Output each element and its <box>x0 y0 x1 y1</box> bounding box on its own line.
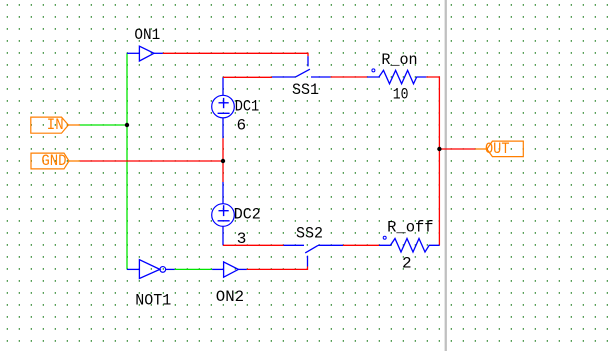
svg-text:R_on: R_on <box>381 51 417 69</box>
wire: ON1 output to SS1 top (red) <box>163 53 308 56</box>
wire: GND stub (orange) <box>69 160 80 162</box>
wire: R_on to output node (red) <box>426 77 439 245</box>
svg-text:R_off: R_off <box>387 218 434 236</box>
svg-text:OUT: OUT <box>485 140 510 158</box>
svg-text:6: 6 <box>237 117 247 135</box>
wire: IN to junction (green) <box>80 124 127 126</box>
wire: DC1 pin bottom (blue) <box>222 118 224 138</box>
wire: OUT stub (orange) <box>475 148 487 150</box>
voltage source DC2 <box>212 204 261 248</box>
wire: top rail corner to SS1 (red) <box>223 76 272 78</box>
wire: GND to node (red) <box>80 160 223 162</box>
voltage source DC1 <box>212 95 260 134</box>
svg-text:2: 2 <box>402 254 412 272</box>
wire: DC1 to DC2 (red) <box>222 138 224 182</box>
svg-text:GND: GND <box>41 152 66 170</box>
junction node at IN <box>125 123 129 127</box>
svg-text:10: 10 <box>393 86 409 104</box>
port IN <box>31 116 69 134</box>
buffer ON1 <box>127 26 163 61</box>
wire: DC2 pin top (blue) <box>222 182 224 204</box>
svg-text:SS2: SS2 <box>296 224 323 242</box>
junction node at OUT <box>437 147 441 151</box>
switch SS2 <box>284 224 344 266</box>
svg-text:ON1: ON1 <box>134 26 160 44</box>
wire: vertical green bus ON1 input to NOT1 input <box>126 53 128 269</box>
wire: node to OUT (red) <box>439 148 475 150</box>
inverter NOT1 <box>127 260 175 310</box>
svg-text:ON2: ON2 <box>216 288 244 306</box>
wire: ON2 output to SS2 bottom (red) <box>247 267 308 270</box>
port GND <box>31 152 69 170</box>
resistor R_off <box>379 218 439 272</box>
svg-text:DC2: DC2 <box>234 206 261 224</box>
sheet border line <box>445 0 447 351</box>
wire: NOT1 to ON2 (green) <box>175 268 212 270</box>
wire: DC2 corner to SS2 left (red) <box>223 244 284 246</box>
switch SS1 <box>272 56 331 99</box>
buffer ON2 <box>212 262 247 306</box>
wire: SS1 to R_on (red) <box>331 76 368 78</box>
resistor R_on <box>367 51 426 103</box>
svg-text:SS1: SS1 <box>292 81 319 99</box>
wire: SS2 to R_off (red) <box>343 244 379 246</box>
svg-text:NOT1: NOT1 <box>135 291 171 309</box>
junction node at GND/DC <box>221 159 225 163</box>
wire: DC2 bottom corner to SS2 (blue pin + red) <box>222 226 224 245</box>
wire: IN stub (orange) <box>69 124 81 126</box>
port OUT <box>485 140 523 158</box>
svg-text:DC1: DC1 <box>235 98 260 116</box>
wire: DC1 pin top (blue) <box>222 77 224 95</box>
svg-text:IN: IN <box>47 116 64 134</box>
